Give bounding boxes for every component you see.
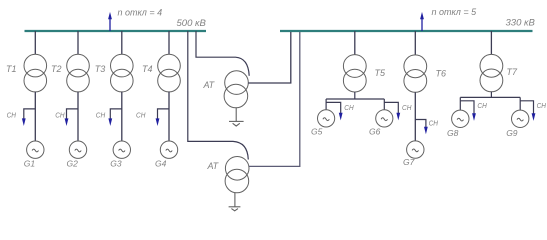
svg-text:G2: G2 xyxy=(67,159,79,169)
wire AT2 to bus2 xyxy=(249,32,300,166)
arrow SN G4 xyxy=(156,118,160,126)
wire bus2 to T6 xyxy=(414,31,416,55)
wire bus2 to T7 xyxy=(490,31,492,55)
wire bus1 to T3 xyxy=(121,31,123,55)
arrow SN G1 xyxy=(22,118,26,126)
svg-text:G1: G1 xyxy=(24,159,36,169)
wire SN branch G9 xyxy=(520,101,533,115)
outgoing lines arrow bus1 xyxy=(108,12,112,31)
wire bus1 to AT1 xyxy=(196,31,249,76)
bus 500kV xyxy=(25,30,207,32)
generator G4 xyxy=(160,141,177,158)
svg-text:АТ: АТ xyxy=(207,161,220,171)
svg-text:Т7: Т7 xyxy=(507,67,518,77)
generator G9 xyxy=(512,110,529,127)
autotransformer AT1 xyxy=(224,71,248,108)
transformer T3 xyxy=(111,54,134,92)
transformer T6 xyxy=(404,55,427,92)
transformer T5 xyxy=(343,55,366,92)
autotransformer AT2 xyxy=(225,157,249,193)
svg-text:СН: СН xyxy=(344,103,354,112)
wire SN branch G3 xyxy=(110,109,122,120)
transformer T2 xyxy=(67,54,90,92)
wire T1 to G1 xyxy=(34,92,36,141)
wire T6 to G7 xyxy=(414,92,416,141)
generator G2 xyxy=(69,141,86,158)
transformer T1 xyxy=(24,54,47,92)
wire SN branch G7 xyxy=(415,120,426,129)
svg-text:G5: G5 xyxy=(311,127,323,137)
arrow SN G5 xyxy=(339,113,343,121)
transformer T7 xyxy=(480,54,503,91)
arrow SN G3 xyxy=(108,118,112,126)
arrow SN G8 xyxy=(472,113,476,121)
arrow SN G2 xyxy=(65,118,69,126)
generator G1 xyxy=(27,141,44,158)
bus 330kV xyxy=(280,30,533,32)
svg-text:330 кВ: 330 кВ xyxy=(506,17,536,28)
svg-text:G3: G3 xyxy=(110,159,122,169)
svg-text:Т2: Т2 xyxy=(51,64,62,74)
wire bus2 to T5 xyxy=(354,31,356,55)
wire bus1 to T4 xyxy=(168,31,170,55)
outgoing lines arrow bus2 xyxy=(420,12,424,31)
wire SN branch G1 xyxy=(24,109,36,120)
wire SN branch G5 xyxy=(326,102,341,114)
svg-text:СН: СН xyxy=(7,110,17,119)
wire bus1 to AT2 xyxy=(188,31,249,160)
svg-text:Т6: Т6 xyxy=(436,69,447,79)
svg-text:Т5: Т5 xyxy=(375,68,386,78)
ground AT1 xyxy=(229,108,244,126)
ground AT2 xyxy=(229,193,241,211)
svg-text:500 кВ: 500 кВ xyxy=(177,18,207,29)
svg-text:n откл = 4: n откл = 4 xyxy=(118,7,163,17)
generator G7 xyxy=(407,141,424,158)
svg-text:G4: G4 xyxy=(155,159,167,169)
wire AT1 to bus2 xyxy=(248,32,290,83)
wire T2 to G2 xyxy=(77,92,79,141)
arrow SN G7 xyxy=(424,127,428,135)
svg-text:СН: СН xyxy=(402,103,412,112)
svg-text:G7: G7 xyxy=(403,157,415,167)
svg-text:СН: СН xyxy=(96,110,106,119)
wire bus1 to T1 xyxy=(34,31,36,55)
svg-text:G6: G6 xyxy=(369,127,381,137)
svg-text:СН: СН xyxy=(136,110,146,119)
svg-text:n откл = 5: n откл = 5 xyxy=(432,7,478,17)
wire bus1 to T2 xyxy=(77,31,79,55)
svg-text:G9: G9 xyxy=(506,128,518,138)
wire T5 splitter xyxy=(326,92,384,110)
generator G5 xyxy=(318,110,335,127)
wire T4 to G4 xyxy=(168,92,170,141)
svg-text:Т4: Т4 xyxy=(142,64,153,74)
arrow SN G6 xyxy=(396,113,400,121)
transformer T4 xyxy=(158,54,181,92)
svg-text:Т3: Т3 xyxy=(95,64,106,74)
svg-text:Т1: Т1 xyxy=(6,64,17,74)
wire SN branch G8 xyxy=(460,101,474,115)
svg-text:АТ: АТ xyxy=(203,80,216,90)
svg-text:СН: СН xyxy=(429,118,439,127)
generator G6 xyxy=(376,110,393,127)
arrow SN G9 xyxy=(532,113,536,121)
wire SN branch G4 xyxy=(158,109,170,120)
svg-text:СН: СН xyxy=(55,110,65,119)
wire SN branch G2 xyxy=(67,109,79,120)
wire T3 to G3 xyxy=(121,92,123,141)
svg-text:СН: СН xyxy=(537,101,547,110)
generator G8 xyxy=(452,110,469,127)
svg-text:СН: СН xyxy=(477,101,487,110)
wire SN branch G6 xyxy=(384,102,398,114)
svg-text:G8: G8 xyxy=(447,128,459,138)
wire T7 splitter xyxy=(460,92,520,110)
generator G3 xyxy=(113,141,130,158)
